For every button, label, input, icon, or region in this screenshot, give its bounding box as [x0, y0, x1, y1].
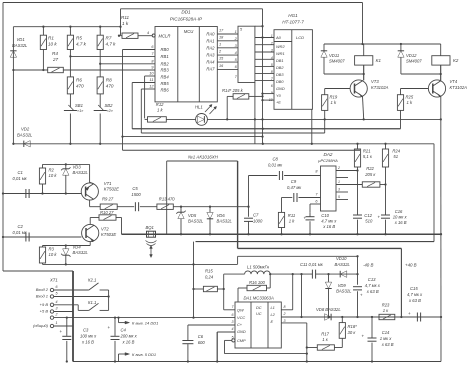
svg-text:6: 6	[56, 285, 58, 289]
svg-text:8: 8	[271, 70, 273, 74]
svg-text:R23: R23	[382, 303, 390, 308]
svg-text:27: 27	[52, 57, 59, 62]
svg-text:х 16 В: х 16 В	[322, 224, 335, 229]
svg-text:+E: +E	[276, 100, 281, 105]
svg-text:4: 4	[56, 300, 58, 304]
svg-text:х 63 В: х 63 В	[366, 289, 379, 294]
svg-text:470: 470	[106, 84, 114, 89]
svg-text:№1 АК1016ХН: №1 АК1016ХН	[188, 154, 219, 159]
svg-text:VT2: VT2	[101, 227, 109, 232]
svg-text:BAS32L: BAS32L	[335, 262, 351, 267]
svg-text:R25: R25	[406, 95, 414, 100]
svg-text:205 к: 205 к	[364, 172, 376, 177]
svg-text:VD3: VD3	[73, 165, 82, 170]
svg-text:LCD: LCD	[296, 35, 304, 40]
svg-text:х 16 В: х 16 В	[122, 340, 135, 345]
svg-text:RA1: RA1	[206, 38, 214, 43]
svg-text:1 k: 1 k	[331, 100, 337, 105]
svg-text:KT3102A: KT3102A	[450, 85, 468, 90]
svg-text:4: 4	[232, 327, 234, 331]
svg-text:R19: R19	[330, 95, 338, 100]
svg-text:+: +	[108, 325, 111, 330]
svg-text:30 к: 30 к	[348, 330, 357, 335]
svg-text:BAS32L: BAS32L	[217, 219, 233, 224]
svg-text:BAS32L: BAS32L	[17, 133, 33, 138]
svg-text:VD5: VD5	[188, 213, 197, 218]
svg-text:DB2: DB2	[276, 65, 284, 70]
svg-text:C6: C6	[198, 334, 204, 339]
svg-text:DA2: DA2	[324, 152, 333, 157]
svg-text:R2: R2	[49, 168, 55, 173]
svg-text:Вход 2: Вход 2	[36, 287, 49, 292]
svg-text:8: 8	[284, 305, 286, 309]
svg-text:C2: C2	[18, 224, 24, 229]
svg-text:1 k: 1 k	[157, 108, 163, 113]
svg-text:VD11: VD11	[329, 53, 339, 58]
svg-text:3: 3	[232, 320, 234, 324]
svg-text:К выв. 5 DD1: К выв. 5 DD1	[132, 352, 156, 357]
svg-text:E: E	[271, 319, 274, 324]
svg-text:R9 27: R9 27	[102, 197, 114, 202]
svg-text:1 k: 1 k	[122, 21, 129, 26]
svg-text:0,01 мк: 0,01 мк	[13, 176, 28, 181]
svg-text:BAS32L: BAS32L	[73, 170, 89, 175]
svg-text:SM4007: SM4007	[406, 59, 422, 64]
svg-text:3: 3	[338, 188, 340, 192]
svg-text:R22: R22	[366, 166, 374, 171]
svg-text:10 k: 10 k	[48, 42, 57, 47]
svg-text:PIC16F628A-IP: PIC16F628A-IP	[170, 17, 203, 22]
svg-text:1: 1	[219, 42, 221, 46]
svg-text:Y0: Y0	[276, 93, 282, 98]
svg-text:UC: UC	[256, 311, 262, 316]
svg-text:4: 4	[271, 56, 273, 60]
svg-text:K1: K1	[376, 58, 382, 63]
svg-text:+9 В: +9 В	[40, 302, 49, 307]
svg-text:C12: C12	[364, 213, 372, 218]
svg-text:1 k: 1 k	[407, 100, 413, 105]
svg-text:4: 4	[147, 31, 149, 35]
svg-text:10 мк х: 10 мк х	[393, 215, 408, 220]
svg-text:11: 11	[150, 78, 154, 82]
svg-text:510: 510	[365, 219, 373, 224]
svg-text:+: +	[60, 329, 63, 334]
svg-text:+: +	[360, 293, 363, 298]
svg-text:R1: R1	[48, 36, 54, 41]
svg-text:+: +	[362, 334, 365, 339]
svg-text:5: 5	[56, 292, 58, 296]
svg-text:51: 51	[393, 154, 398, 159]
svg-text:х 63 В: х 63 В	[381, 342, 394, 347]
svg-text:C4: C4	[121, 328, 127, 333]
svg-text:R12: R12	[156, 102, 164, 107]
svg-text:2: 2	[337, 166, 340, 170]
svg-text:470: 470	[76, 84, 84, 89]
svg-text:VCC: VCC	[237, 315, 245, 320]
svg-text:C16: C16	[395, 209, 403, 214]
svg-text:1: 1	[271, 34, 273, 38]
svg-text:C7: C7	[253, 213, 259, 218]
svg-text:DD1: DD1	[181, 10, 191, 15]
svg-text:2: 2	[270, 42, 273, 46]
svg-text:х 16 В: х 16 В	[394, 220, 407, 225]
svg-text:VD6: VD6	[217, 213, 226, 218]
svg-text:RB5: RB5	[161, 81, 170, 86]
svg-text:RB0: RB0	[161, 47, 170, 52]
svg-text:SB1: SB1	[75, 103, 83, 108]
svg-text:R18*: R18*	[348, 324, 358, 329]
svg-text:C14: C14	[382, 330, 390, 335]
svg-text:C10: C10	[321, 213, 329, 218]
svg-text:RA7: RA7	[206, 67, 215, 72]
svg-text:VD9: VD9	[338, 283, 347, 288]
svg-text:DC: DC	[256, 305, 262, 310]
svg-text:C5: C5	[132, 186, 138, 191]
svg-text:+: +	[304, 216, 307, 221]
svg-text:VD12: VD12	[406, 53, 417, 58]
svg-text:6: 6	[232, 313, 234, 317]
svg-text:4,7 мк х: 4,7 мк х	[407, 292, 423, 297]
svg-text:1: 1	[235, 30, 237, 34]
svg-text:DB1: DB1	[276, 58, 284, 63]
svg-text:R11: R11	[121, 15, 130, 20]
svg-text:K2: K2	[453, 58, 459, 63]
svg-text:1 k: 1 k	[289, 219, 295, 224]
svg-text:R8: R8	[106, 78, 112, 83]
svg-text:RA2: RA2	[206, 45, 215, 50]
svg-text:WR1: WR1	[276, 51, 285, 56]
svg-text:BAS32L: BAS32L	[12, 43, 28, 48]
svg-text:RB3: RB3	[161, 68, 170, 73]
svg-text:6: 6	[271, 84, 273, 88]
svg-text:RA0: RA0	[206, 32, 215, 37]
svg-text:0,01 мк: 0,01 мк	[13, 230, 28, 235]
svg-text:200 мк х: 200 мк х	[120, 334, 138, 339]
svg-text:3: 3	[284, 319, 286, 323]
svg-text:C13: C13	[368, 277, 376, 282]
svg-text:GND: GND	[276, 86, 285, 91]
svg-text:RB1: RB1	[161, 54, 169, 59]
svg-text:2: 2	[283, 312, 286, 316]
svg-text:х 16 В: х 16 В	[81, 340, 94, 345]
svg-text:К1.1: К1.1	[88, 300, 96, 305]
svg-text:R11: R11	[288, 213, 295, 218]
svg-text:R10 27: R10 27	[100, 210, 114, 215]
svg-text:VD10: VD10	[336, 256, 347, 261]
svg-text:3: 3	[271, 49, 273, 53]
svg-text:SM4007: SM4007	[329, 59, 345, 64]
svg-text:0,47 мк: 0,47 мк	[287, 185, 302, 190]
svg-text:10 k: 10 k	[49, 252, 58, 257]
svg-text:К выв. 14 DD1: К выв. 14 DD1	[132, 320, 158, 325]
svg-text:MCU: MCU	[184, 29, 195, 34]
svg-text:SB2: SB2	[105, 103, 114, 108]
svg-text:GND: GND	[237, 329, 246, 334]
svg-text:VD4: VD4	[73, 245, 82, 250]
svg-text:VT3: VT3	[371, 79, 379, 84]
svg-text:100 мк х: 100 мк х	[80, 334, 97, 339]
svg-text:R4: R4	[52, 51, 58, 56]
svg-text:х 63 В: х 63 В	[408, 298, 421, 303]
svg-text:CMP: CMP	[237, 338, 246, 343]
svg-text:VT1: VT1	[104, 181, 112, 186]
svg-text:VD8 BAS32L: VD8 BAS32L	[316, 307, 341, 312]
svg-text:1: 1	[56, 321, 58, 325]
svg-text:RB2: RB2	[161, 62, 170, 67]
svg-text:600: 600	[198, 340, 206, 345]
svg-text:DB3: DB3	[276, 72, 284, 77]
svg-text:R16 100: R16 100	[249, 280, 266, 285]
svg-text:BAS32L: BAS32L	[73, 250, 89, 255]
svg-text:BAS32L: BAS32L	[188, 219, 204, 224]
svg-text:A0: A0	[275, 35, 282, 40]
svg-text:RB6: RB6	[161, 88, 170, 93]
svg-text:10 k: 10 k	[49, 173, 58, 178]
svg-text:5: 5	[271, 63, 273, 67]
svg-text:µРС298НА: µРС298НА	[318, 158, 338, 163]
svg-text:XT1: XT1	[49, 278, 58, 283]
svg-text:RA4: RA4	[206, 59, 215, 64]
svg-text:5: 5	[338, 195, 340, 199]
svg-text:(общий): (общий)	[33, 323, 49, 328]
svg-text:MCLR: MCLR	[159, 34, 171, 39]
svg-text:R15: R15	[205, 269, 213, 274]
svg-text:BQ1: BQ1	[146, 225, 154, 230]
svg-text:QW: QW	[237, 308, 244, 313]
svg-text:R17: R17	[321, 332, 329, 337]
svg-text:HT-1077-7: HT-1077-7	[282, 20, 304, 25]
svg-text:L1 500мкГн: L1 500мкГн	[247, 265, 270, 270]
svg-text:+: +	[378, 214, 381, 219]
svg-text:0,24: 0,24	[205, 275, 214, 280]
svg-text:+40 В: +40 В	[405, 263, 417, 268]
svg-text:«1»: «1»	[77, 109, 83, 113]
svg-text:RB4: RB4	[161, 75, 170, 80]
svg-text:+5 В: +5 В	[40, 309, 49, 314]
svg-text:C11 0,01 мк: C11 0,01 мк	[300, 262, 324, 267]
svg-text:R7: R7	[106, 36, 112, 41]
svg-text:BAS32L: BAS32L	[336, 289, 352, 294]
svg-text:4: 4	[235, 51, 237, 55]
svg-text:4,7 мк х: 4,7 мк х	[321, 219, 337, 224]
svg-text:2: 2	[55, 313, 58, 317]
svg-text:L1: L1	[271, 305, 275, 310]
svg-text:4,7 k: 4,7 k	[106, 42, 117, 47]
svg-text:1 мк х: 1 мк х	[380, 336, 393, 341]
svg-text:-40 В: -40 В	[363, 263, 374, 268]
svg-text:KT502E: KT502E	[104, 187, 119, 192]
svg-text:C3: C3	[83, 328, 89, 333]
svg-text:0,01 мк: 0,01 мк	[268, 163, 283, 168]
svg-text:+: +	[408, 311, 411, 316]
svg-text:4,7 мк х: 4,7 мк х	[365, 283, 381, 288]
svg-text:R3: R3	[49, 247, 55, 252]
svg-text:C9: C9	[291, 179, 297, 184]
svg-text:WR2: WR2	[276, 44, 285, 49]
svg-text:Вход 1: Вход 1	[36, 294, 48, 299]
svg-text:C+: C+	[237, 322, 243, 327]
svg-text:R14* 205 k: R14* 205 k	[222, 88, 244, 93]
svg-text:R21: R21	[363, 149, 371, 154]
svg-text:R13 470: R13 470	[159, 197, 176, 202]
svg-text:1: 1	[338, 180, 340, 184]
svg-text:KT3102A: KT3102A	[371, 85, 389, 90]
svg-text:C1: C1	[18, 170, 23, 175]
svg-text:R24: R24	[392, 149, 400, 154]
svg-text:DB0: DB0	[276, 79, 284, 84]
svg-text:5,1 к: 5,1 к	[363, 154, 373, 159]
svg-text:1500: 1500	[131, 192, 141, 197]
svg-text:KT503E: KT503E	[101, 232, 116, 237]
svg-text:RA3: RA3	[206, 52, 215, 57]
svg-text:DA1 MC33063A: DA1 MC33063A	[244, 296, 274, 301]
svg-text:«2»: «2»	[107, 109, 113, 113]
svg-text:4,7 k: 4,7 k	[76, 42, 87, 47]
svg-text:VD2: VD2	[21, 127, 30, 132]
svg-text:3: 3	[56, 307, 58, 311]
svg-text:HL1: HL1	[195, 105, 203, 110]
svg-text:К2.1: К2.1	[88, 278, 96, 283]
svg-text:9: 9	[271, 91, 273, 95]
svg-text:HG1: HG1	[288, 13, 298, 18]
svg-text:C15: C15	[410, 286, 418, 291]
svg-text:R5: R5	[76, 36, 82, 41]
svg-text:1000: 1000	[253, 219, 263, 224]
svg-text:R6: R6	[76, 78, 82, 83]
svg-text:VD1: VD1	[17, 37, 25, 42]
svg-text:VT4: VT4	[450, 79, 458, 84]
svg-text:C8: C8	[273, 157, 279, 162]
